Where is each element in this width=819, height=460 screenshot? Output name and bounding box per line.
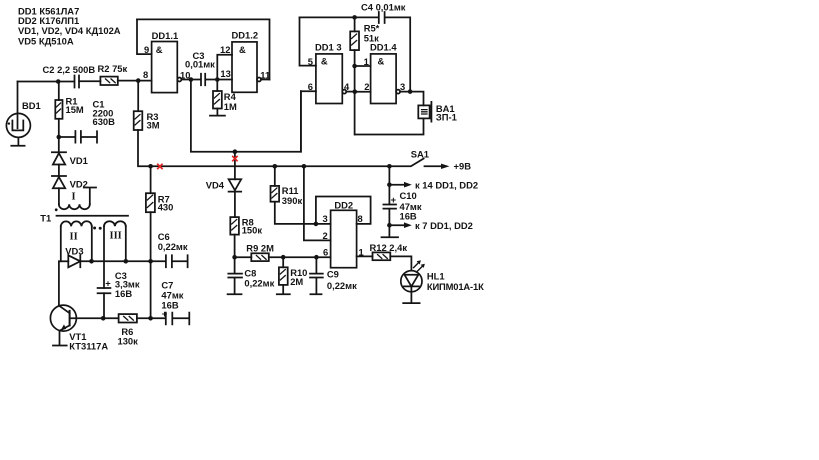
svg-text:+: + xyxy=(162,308,168,319)
svg-text:к 7 DD1, DD2: к 7 DD1, DD2 xyxy=(415,220,473,231)
svg-text:&: & xyxy=(321,56,328,67)
svg-text:DD2: DD2 xyxy=(334,200,353,211)
svg-text:VD5 КД510А: VD5 КД510А xyxy=(18,35,74,46)
svg-text:&: & xyxy=(378,56,385,67)
svg-text:VD4: VD4 xyxy=(206,180,225,191)
svg-text:6: 6 xyxy=(308,81,313,92)
svg-text:0,22мк: 0,22мк xyxy=(158,241,188,252)
svg-text:0,22мк: 0,22мк xyxy=(244,278,274,289)
svg-text:130к: 130к xyxy=(118,336,139,347)
svg-text:DD1.1: DD1.1 xyxy=(152,30,179,41)
svg-text:I: I xyxy=(72,192,76,203)
svg-text:к 14 DD1, DD2: к 14 DD1, DD2 xyxy=(415,179,478,190)
svg-text:+: + xyxy=(105,278,111,289)
svg-text:Т1: Т1 xyxy=(40,213,51,224)
svg-text:150к: 150к xyxy=(242,225,263,236)
svg-text:VD3: VD3 xyxy=(65,245,83,256)
svg-text:4: 4 xyxy=(344,81,350,92)
svg-text:0,01мк: 0,01мк xyxy=(185,58,215,69)
svg-text:VD2: VD2 xyxy=(70,179,88,190)
svg-text:DD1 3: DD1 3 xyxy=(315,42,342,53)
svg-text:3: 3 xyxy=(400,81,405,92)
svg-text:3: 3 xyxy=(323,213,328,224)
svg-text:ЗП-1: ЗП-1 xyxy=(436,112,457,123)
svg-text:0,22мк: 0,22мк xyxy=(327,280,357,291)
svg-text:3М: 3М xyxy=(147,120,160,131)
svg-text:R12 2,4к: R12 2,4к xyxy=(370,242,408,253)
svg-text:2: 2 xyxy=(364,81,369,92)
svg-text:SA1: SA1 xyxy=(411,149,429,160)
svg-text:9: 9 xyxy=(144,44,149,55)
svg-text:C10: C10 xyxy=(400,190,417,201)
svg-text:2: 2 xyxy=(323,230,328,241)
svg-text:II: II xyxy=(70,231,78,242)
svg-text:C4 0,01мк: C4 0,01мк xyxy=(361,2,406,13)
svg-text:1: 1 xyxy=(364,56,369,67)
svg-text:51к: 51к xyxy=(364,33,379,44)
svg-text:&: & xyxy=(239,44,246,55)
svg-text:630В: 630В xyxy=(93,116,116,127)
svg-text:430: 430 xyxy=(158,201,174,212)
svg-text:VD1: VD1 xyxy=(70,155,88,166)
svg-text:C2 2,2 500В: C2 2,2 500В xyxy=(43,64,96,75)
svg-text:5: 5 xyxy=(308,56,313,67)
svg-text:+9В: +9В xyxy=(454,161,472,172)
svg-text:&: & xyxy=(156,44,163,55)
svg-text:III: III xyxy=(110,231,122,242)
svg-text:1М: 1М xyxy=(224,101,237,112)
svg-text:+: + xyxy=(391,194,397,205)
svg-text:КИПМ01А-1К: КИПМ01А-1К xyxy=(427,281,484,292)
svg-text:8: 8 xyxy=(143,69,148,80)
svg-text:DD1.2: DD1.2 xyxy=(232,30,259,41)
svg-text:КТ3117А: КТ3117А xyxy=(69,340,108,351)
svg-text:15М: 15М xyxy=(66,104,84,115)
svg-text:12: 12 xyxy=(220,44,230,55)
svg-text:13: 13 xyxy=(220,68,230,79)
svg-text:C9: C9 xyxy=(327,269,339,280)
svg-text:6: 6 xyxy=(323,247,328,258)
svg-text:10: 10 xyxy=(180,70,190,81)
svg-text:16В: 16В xyxy=(115,288,132,299)
svg-text:8: 8 xyxy=(358,213,363,224)
svg-text:1: 1 xyxy=(359,247,364,258)
svg-text:390к: 390к xyxy=(282,195,303,206)
svg-text:R9 2М: R9 2М xyxy=(246,242,274,253)
svg-text:R2 75к: R2 75к xyxy=(98,63,128,74)
svg-text:2М: 2М xyxy=(290,276,303,287)
svg-text:HL1: HL1 xyxy=(427,271,445,282)
svg-text:11: 11 xyxy=(260,70,270,81)
svg-text:BD1: BD1 xyxy=(22,100,41,111)
